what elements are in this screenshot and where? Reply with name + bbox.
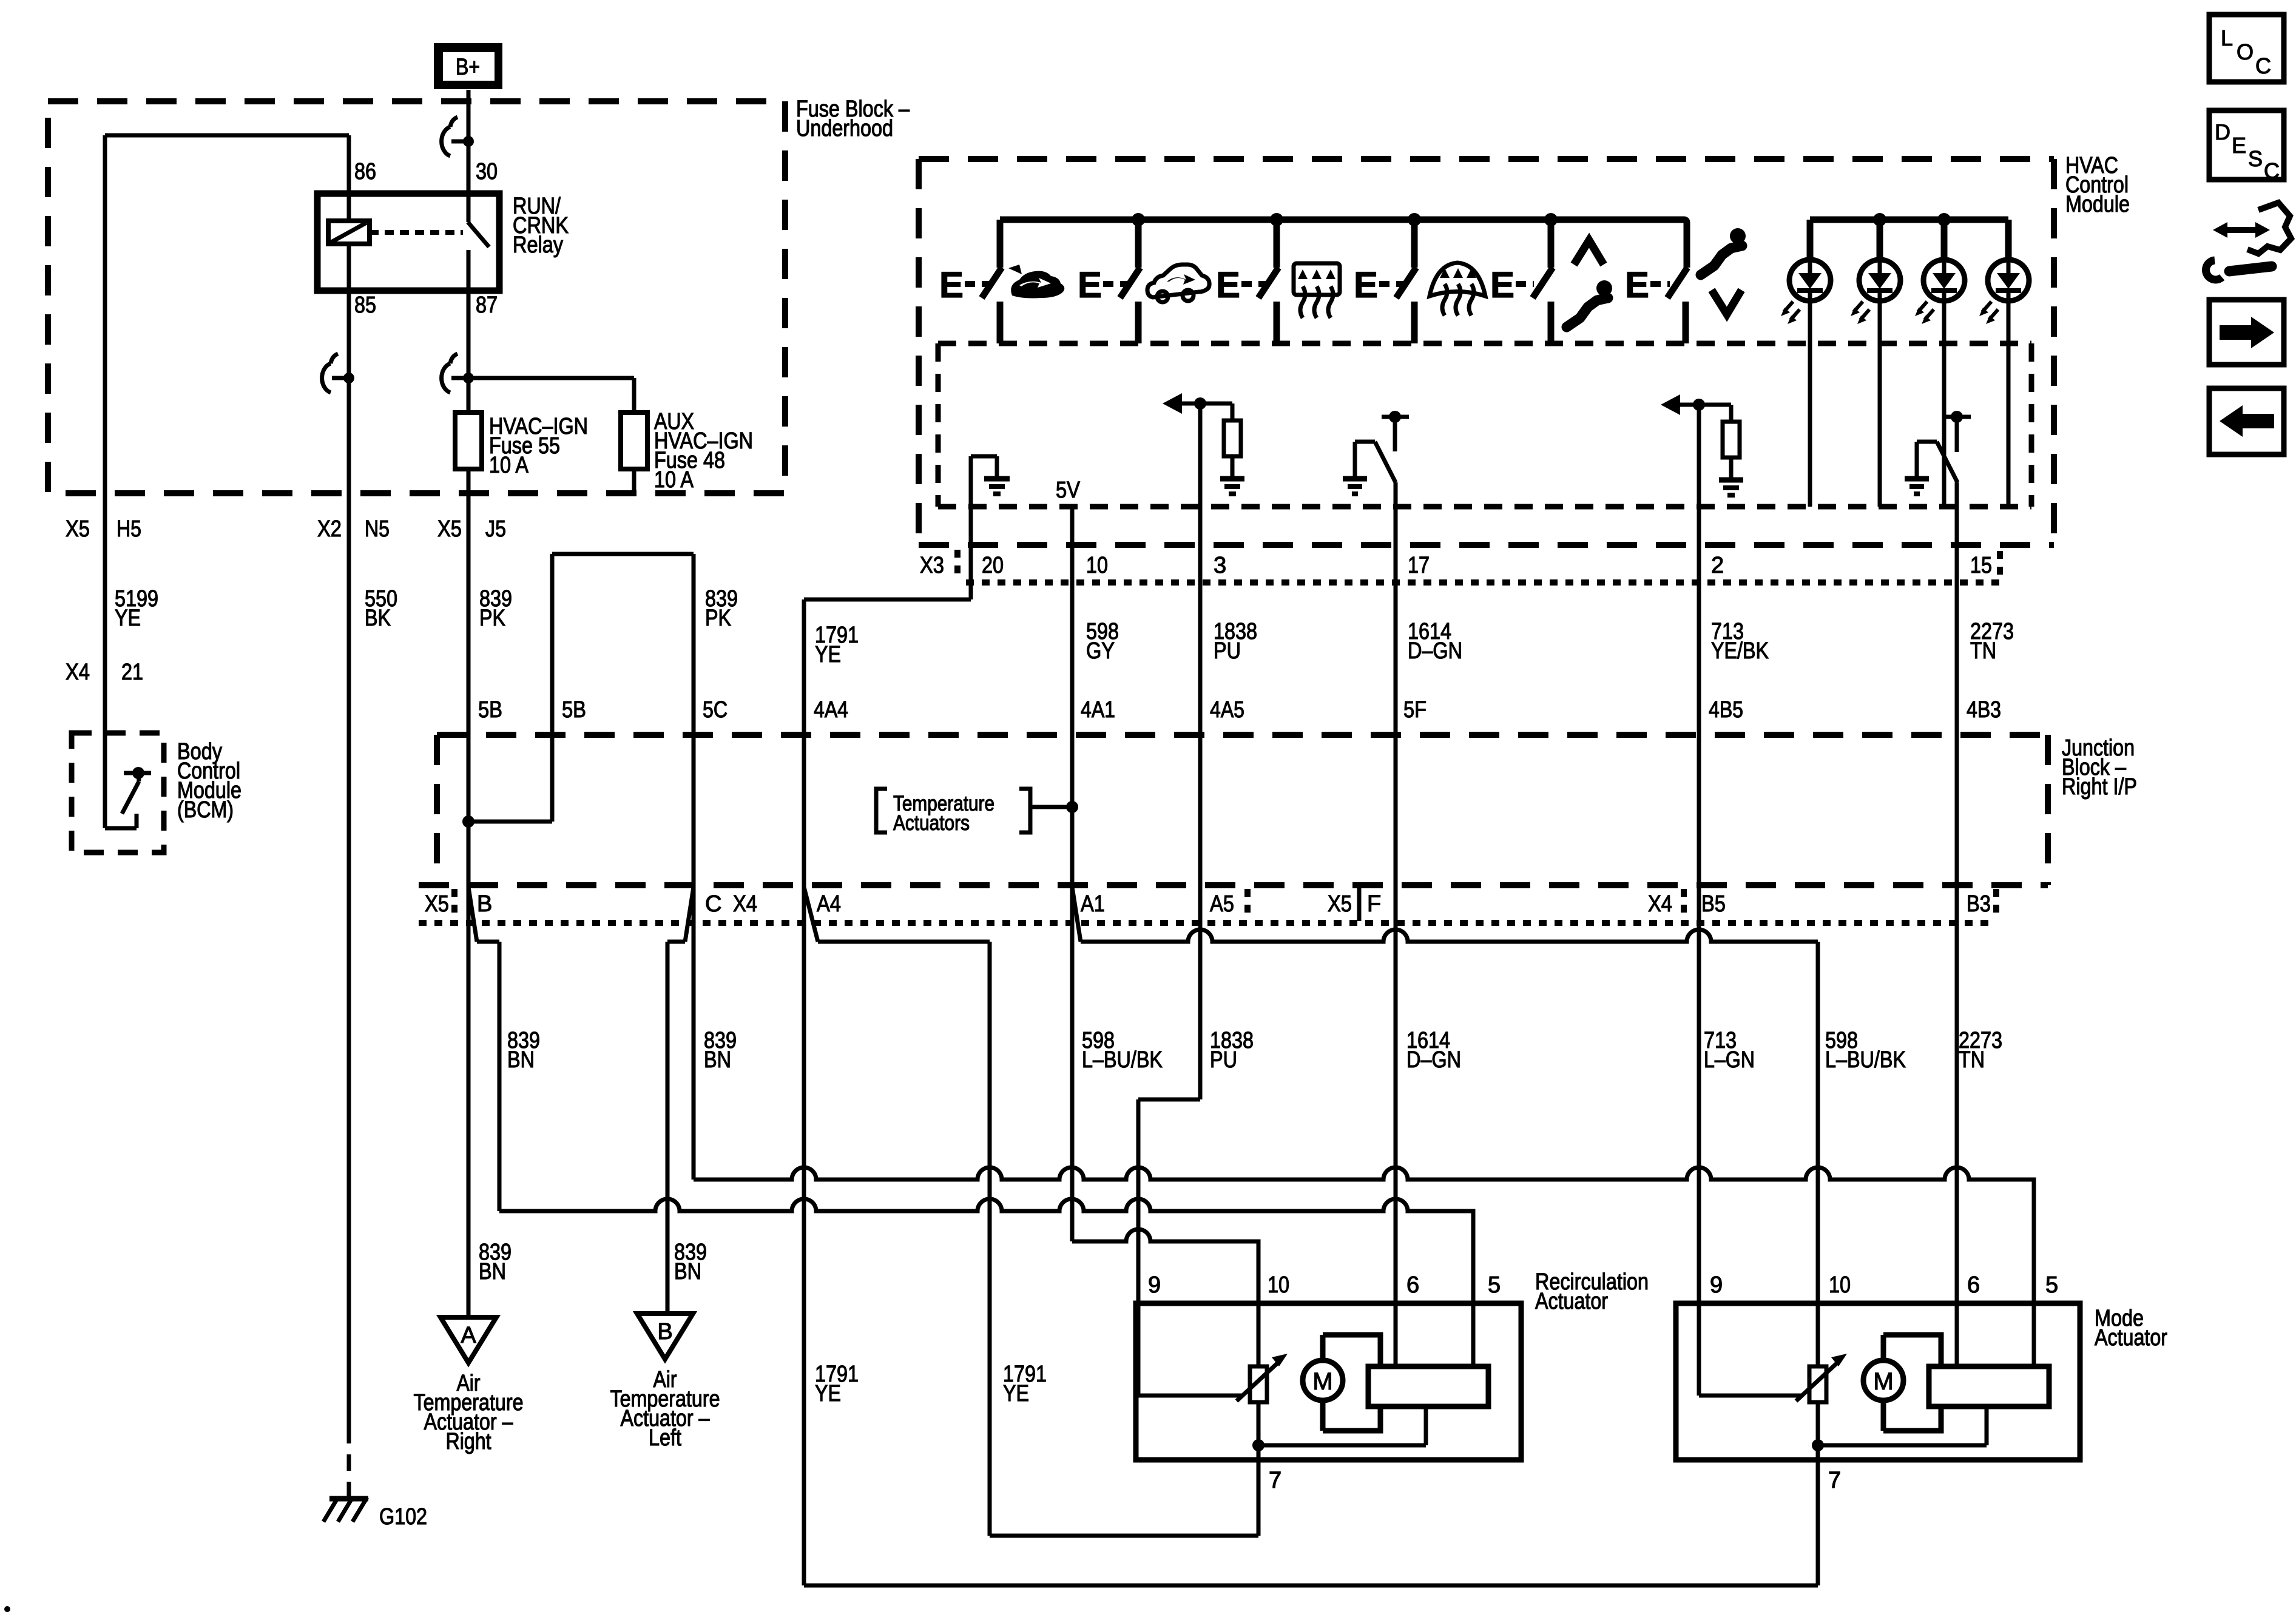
svg-text:BN: BN <box>507 1047 535 1073</box>
svg-text:X4: X4 <box>66 660 90 685</box>
svg-text:E: E <box>1490 265 1514 305</box>
label Mode Actuator <box>2095 1306 2167 1351</box>
relay dashed actuation link <box>370 230 463 235</box>
label Fuse 48 <box>654 409 753 493</box>
label Recirculation Actuator <box>1535 1269 1649 1314</box>
wire B+ to relay pin 30 <box>467 90 471 194</box>
LED indicator 4 <box>1979 220 2029 507</box>
label Body Control Module (BCM) <box>177 739 241 823</box>
mode motor <box>1863 1335 1941 1431</box>
svg-text:L–BU/BK: L–BU/BK <box>1825 1047 1906 1073</box>
svg-text:G102: G102 <box>379 1504 427 1530</box>
wire 5199 YE left vertical <box>103 135 107 733</box>
svg-text:87: 87 <box>476 292 498 318</box>
ground inside module at pin 20 <box>971 456 1010 545</box>
svg-text:5V: 5V <box>1056 478 1081 503</box>
recirc motor <box>1303 1335 1380 1431</box>
connector row labels <box>425 891 1991 917</box>
svg-text:TN: TN <box>1970 638 1996 664</box>
label RUN/CRNK Relay <box>513 194 569 258</box>
icon seat occupant lower <box>1567 280 1612 327</box>
svg-text:B: B <box>657 1319 672 1345</box>
fuse AUX HVAC-IGN Fuse 48 <box>621 413 647 493</box>
icon chevron up <box>1574 240 1604 265</box>
wire 1791 YE from pin 20 <box>804 545 971 887</box>
label 839 BN above B <box>674 1240 707 1284</box>
svg-text:YE: YE <box>815 642 841 667</box>
svg-text:21: 21 <box>121 660 143 685</box>
wire 2273 TN pin 15 <box>1955 482 1959 1366</box>
svg-text:X4: X4 <box>1648 891 1672 917</box>
pin B jog and branch <box>468 887 499 1211</box>
pin 17 internal switch to ground <box>1343 411 1409 494</box>
svg-text:YE: YE <box>815 1381 841 1406</box>
relay coil <box>328 194 370 291</box>
svg-text:N5: N5 <box>365 516 390 542</box>
fuse block underhood dashed box <box>48 101 785 493</box>
svg-text:BN: BN <box>674 1259 701 1284</box>
svg-text:X5: X5 <box>425 891 449 917</box>
icon windshield defrost <box>1430 263 1485 316</box>
svg-text:E: E <box>2232 133 2246 158</box>
svg-text:5B: 5B <box>562 697 586 723</box>
svg-text:15: 15 <box>1970 553 1992 578</box>
svg-text:B: B <box>477 891 492 917</box>
label 7 mode <box>1828 1468 1841 1493</box>
switch S5 seat up <box>1490 220 1553 343</box>
LOC box <box>2209 15 2284 82</box>
pin C jog to actuator B <box>667 887 694 1314</box>
svg-text:6: 6 <box>1967 1272 1980 1298</box>
svg-text:PU: PU <box>1210 1047 1237 1073</box>
icon car vent (filled) <box>1008 265 1064 299</box>
svg-text:A: A <box>461 1323 476 1348</box>
wire 550 BK dashed tail <box>347 1427 351 1496</box>
svg-text:L–GN: L–GN <box>1704 1047 1755 1073</box>
wire 1791 YE to recirc pin 7 <box>990 1534 1258 1538</box>
LED indicator 1 <box>1781 220 1831 507</box>
switch S6 seat down <box>1625 265 1687 343</box>
svg-text:A1: A1 <box>1081 891 1105 917</box>
svg-text:E: E <box>1216 265 1240 305</box>
connector row X5/X4 below junction block <box>419 887 1996 923</box>
Mode Actuator box <box>1676 1303 2080 1460</box>
svg-text:C: C <box>2255 53 2271 78</box>
svg-text:X5: X5 <box>437 516 462 542</box>
label Fuse Block - Underhood <box>796 96 910 141</box>
bus junction nodes <box>1132 213 1558 226</box>
svg-text:5F: 5F <box>1403 697 1427 723</box>
svg-text:5: 5 <box>1488 1272 1501 1298</box>
svg-text:X5: X5 <box>1328 891 1352 917</box>
svg-text:S: S <box>2248 146 2263 171</box>
mode potentiometer <box>1699 1354 1847 1402</box>
svg-text:PK: PK <box>705 606 731 631</box>
svg-text:85: 85 <box>354 292 376 318</box>
adjust icon <box>2206 203 2291 280</box>
BCM internal switch <box>105 733 151 828</box>
temperature actuators tie <box>876 789 1078 835</box>
wire node 86 horizontal from left wire to relay <box>105 135 349 194</box>
recirc contact bar <box>1368 1366 1488 1445</box>
mode contact bar <box>1929 1366 2049 1445</box>
svg-text:Underhood: Underhood <box>796 116 893 141</box>
icon chevron down <box>1712 290 1741 314</box>
svg-text:10: 10 <box>1829 1272 1851 1298</box>
icon seat occupant upper <box>1701 228 1746 275</box>
svg-text:9: 9 <box>1710 1272 1723 1298</box>
svg-text:2: 2 <box>1711 553 1724 578</box>
BCM dashed box <box>72 733 164 852</box>
label 1838 PU <box>1214 619 1257 664</box>
svg-text:L: L <box>2221 25 2233 50</box>
svg-text:M: M <box>1312 1368 1332 1395</box>
wire 1791 YE to mode pin 7 <box>804 887 1818 1585</box>
label 839 BN above A <box>479 1240 512 1284</box>
fuse HVAC-IGN Fuse 55 <box>455 413 482 469</box>
svg-text:17: 17 <box>1408 553 1430 578</box>
label air temp actuator left <box>610 1367 720 1451</box>
svg-text:9: 9 <box>1148 1272 1161 1298</box>
mode pin numbers <box>1710 1272 2058 1298</box>
label 5V <box>1056 478 1081 503</box>
next arrow box <box>2209 300 2284 365</box>
HVAC Control Module outer dashed box <box>919 159 2054 545</box>
icon car recirculation (outline) <box>1147 265 1209 302</box>
svg-text:TN: TN <box>1959 1047 1985 1073</box>
switch S3 rear defog <box>1216 220 1278 343</box>
back arrow box <box>2209 388 2284 454</box>
label Fuse 55 <box>489 414 588 478</box>
svg-text:10 A: 10 A <box>489 453 529 478</box>
svg-text:PU: PU <box>1214 638 1241 664</box>
svg-text:7: 7 <box>1269 1468 1281 1493</box>
recirc potentiometer <box>1138 1354 1288 1402</box>
wire 1838 step left to recirc pin 9 <box>1138 1099 1200 1396</box>
relay pin numbers <box>354 159 498 318</box>
X3 pin numbers <box>982 553 1992 578</box>
label air temp actuator right <box>414 1371 524 1454</box>
svg-text:B+: B+ <box>456 55 480 80</box>
label 713 YE/BK <box>1711 619 1769 664</box>
svg-text:4A4: 4A4 <box>814 697 848 723</box>
svg-text:7: 7 <box>1828 1468 1841 1493</box>
connector X3 row <box>919 545 2054 582</box>
svg-text:4A1: 4A1 <box>1081 697 1115 723</box>
label 1791 YE right <box>1003 1362 1047 1406</box>
svg-text:C: C <box>705 891 721 917</box>
junction block right IP dashed box <box>419 735 2048 885</box>
HVAC inner dashed box <box>938 343 2031 507</box>
svg-text:PK: PK <box>479 606 505 631</box>
svg-text:A4: A4 <box>817 891 841 917</box>
svg-text:J5: J5 <box>485 516 506 542</box>
svg-text:10: 10 <box>1086 553 1108 578</box>
svg-text:X2: X2 <box>317 516 342 542</box>
junction block pin labels <box>478 697 2001 723</box>
branch to AUX fuse <box>468 378 634 413</box>
DESC box <box>2209 110 2284 183</box>
label Junction Block - Right I/P <box>2062 735 2137 800</box>
label 7 recirc <box>1269 1468 1281 1493</box>
svg-text:M: M <box>1873 1368 1893 1395</box>
svg-text:E: E <box>1625 265 1649 305</box>
svg-text:B3: B3 <box>1967 891 1991 917</box>
pin 3 sensor feedback: arrow, resistor, ground <box>1163 393 1244 494</box>
LED indicator 2 <box>1851 220 1900 507</box>
svg-text:4A5: 4A5 <box>1210 697 1244 723</box>
pin A1 jog, wire 598 to mode actuator <box>1072 887 1818 1366</box>
svg-text:L–BU/BK: L–BU/BK <box>1082 1047 1163 1073</box>
svg-text:E: E <box>1354 265 1378 305</box>
svg-text:86: 86 <box>354 159 376 184</box>
svg-text:BK: BK <box>365 606 391 631</box>
svg-text:GY: GY <box>1086 638 1115 664</box>
Recirculation Actuator box <box>1136 1303 1521 1460</box>
svg-text:Right: Right <box>446 1429 491 1454</box>
pin A4 jog <box>804 887 990 1536</box>
feed bus H2 839 BN to recirc pin 5 <box>499 1199 1473 1366</box>
svg-text:4B5: 4B5 <box>1709 697 1743 723</box>
label 1791 YE <box>815 623 859 667</box>
page mark <box>4 1606 10 1612</box>
splice in junction block on 839 wire <box>462 554 694 1180</box>
splice clip on 85 wire <box>322 354 354 393</box>
label X3 <box>920 553 944 578</box>
svg-text:E: E <box>1078 265 1102 305</box>
svg-text:YE/BK: YE/BK <box>1711 638 1769 664</box>
label 1614 D-GN <box>1408 619 1462 664</box>
recirc pin7 node <box>1252 1402 1426 1536</box>
svg-text:F: F <box>1367 891 1381 917</box>
wire 598 to recirc pin 10 <box>1072 1229 1258 1366</box>
svg-text:10: 10 <box>1268 1272 1289 1298</box>
switch S4 windshield defrost <box>1354 220 1416 343</box>
air temperature actuator right triangle A <box>441 1317 496 1363</box>
svg-text:Left: Left <box>649 1425 681 1451</box>
pin 2 sensor feedback: arrow, resistor, ground <box>1661 394 1743 495</box>
B+ terminal box <box>434 43 502 89</box>
svg-text:X3: X3 <box>920 553 944 578</box>
connector labels X5 H5 X2 N5 X5 J5 <box>66 516 506 542</box>
wire 598 GY pin 10 5V <box>1070 507 1075 1241</box>
wire 839 PK below fuse 55 down to actuator A <box>467 469 471 1317</box>
svg-text:5: 5 <box>2045 1272 2058 1298</box>
svg-text:D–GN: D–GN <box>1406 1047 1461 1073</box>
pin 15 internal switch to ground <box>1905 411 1971 494</box>
svg-text:4B3: 4B3 <box>1967 697 2001 723</box>
svg-text:Actuators: Actuators <box>893 811 970 835</box>
wire labels 5199 YE / 550 BK / 839 PK <box>115 586 158 631</box>
svg-text:Right I/P: Right I/P <box>2062 774 2137 800</box>
svg-text:5C: 5C <box>703 697 728 723</box>
label HVAC Control Module <box>2065 153 2130 217</box>
svg-text:Actuator: Actuator <box>2095 1325 2167 1351</box>
feed bus H1 839 BN to mode pin 5 <box>694 1167 2034 1366</box>
label 598 GY <box>1086 619 1119 664</box>
svg-text:H5: H5 <box>116 516 141 542</box>
svg-text:O: O <box>2237 39 2254 64</box>
svg-text:20: 20 <box>982 553 1004 578</box>
svg-text:3: 3 <box>1214 553 1226 578</box>
wire 839 PK relay 87 down <box>467 291 471 413</box>
svg-text:B5: B5 <box>1701 891 1726 917</box>
LED indicator 3 <box>1915 220 1965 507</box>
relay switch blade <box>468 194 489 291</box>
svg-text:X4: X4 <box>733 891 757 917</box>
wire 1614 D-GN pin 17 <box>1394 482 1398 1366</box>
svg-text:10 A: 10 A <box>654 467 694 493</box>
recirc pin numbers <box>1148 1272 1501 1298</box>
icon rear defog <box>1294 263 1340 318</box>
ground G102 <box>323 1497 427 1530</box>
mode pin7 node <box>1812 1402 1987 1585</box>
svg-text:Actuator: Actuator <box>1535 1289 1608 1314</box>
wire 713 YE/BK pin 2 <box>1697 405 1701 1396</box>
svg-text:6: 6 <box>1406 1272 1419 1298</box>
label 2273 TN <box>1970 619 2014 664</box>
svg-text:X5: X5 <box>66 516 90 542</box>
svg-text:A5: A5 <box>1210 891 1234 917</box>
svg-text:YE: YE <box>1003 1381 1029 1406</box>
wire 550 BK relay 85 down <box>347 291 351 1427</box>
svg-text:BN: BN <box>704 1047 731 1073</box>
switch S2 recirculation <box>1078 220 1140 343</box>
svg-text:5B: 5B <box>478 697 502 723</box>
switch bus <box>1000 220 1687 268</box>
switch S1 hood vent <box>939 220 1002 343</box>
svg-text:Relay: Relay <box>513 232 563 258</box>
LED bus <box>1810 213 2008 226</box>
relay RUN/CRNK box <box>317 194 499 291</box>
air temperature actuator left triangle B <box>637 1314 693 1359</box>
label 1791 YE left <box>815 1362 859 1406</box>
splice clip on 87 wire <box>442 354 474 393</box>
svg-text:C: C <box>2264 158 2280 183</box>
svg-text:(BCM): (BCM) <box>177 797 234 823</box>
connector label X4 21 <box>66 660 143 685</box>
svg-text:E: E <box>939 265 964 305</box>
svg-text:D: D <box>2215 120 2230 144</box>
svg-text:30: 30 <box>476 159 498 184</box>
svg-text:BN: BN <box>479 1259 506 1284</box>
splice clip on B+ wire <box>442 117 474 156</box>
labels below connector <box>507 1028 540 1073</box>
svg-text:D–GN: D–GN <box>1408 638 1462 664</box>
svg-text:YE: YE <box>115 606 141 631</box>
wire 1838 PU pin 3 <box>1198 403 1203 1099</box>
svg-text:Module: Module <box>2065 192 2130 217</box>
